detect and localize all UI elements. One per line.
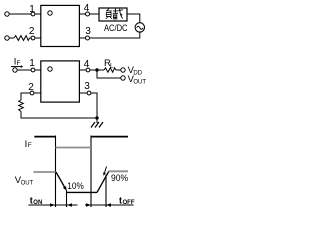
IF waveform high 2 — [91, 136, 128, 138]
pin 2 circle — [30, 91, 34, 95]
glyph 负 — [106, 9, 112, 19]
wire pin 3 to ground — [79, 93, 97, 123]
svg-text:2: 2 — [28, 82, 34, 93]
resistor R2 (input series, vertical) — [19, 100, 24, 112]
svg-text:DD: DD — [133, 71, 142, 77]
svg-text:F: F — [28, 142, 32, 149]
wire node to VOUT terminal — [97, 70, 121, 78]
pin 3 circle — [86, 36, 90, 40]
svg-text:1: 1 — [29, 4, 35, 15]
wire terminal to pin 1 — [17, 69, 41, 71]
IF waveform high 1 — [34, 136, 55, 138]
resistor R1 (series input) — [14, 36, 30, 41]
reference line v3 (IF rise) — [90, 136, 92, 208]
pin 3 circle — [87, 91, 91, 95]
wire pin 3 to AC source — [79, 32, 140, 38]
90% marker arrow — [105, 167, 107, 173]
pin 4 circle — [86, 12, 90, 16]
svg-text:10%: 10% — [67, 181, 84, 191]
svg-text:OUT: OUT — [133, 80, 146, 86]
ground symbol — [91, 122, 103, 128]
VOUT falling edge with 10% arrow — [56, 172, 65, 188]
svg-text:4: 4 — [84, 3, 90, 14]
svg-text:OFF: OFF — [123, 200, 135, 206]
svg-text:3: 3 — [84, 81, 90, 92]
pin 4 circle — [86, 68, 90, 72]
pin 1 circle — [31, 12, 35, 16]
toff arrow left — [106, 203, 111, 206]
terminal T1 (anode input) — [5, 12, 9, 16]
wire load box to AC source — [127, 14, 140, 23]
VOUT waveform low — [66, 191, 97, 193]
ton arrow left — [67, 203, 72, 206]
wire pin 4 to RL — [79, 69, 104, 71]
svg-text:AC/DC: AC/DC — [104, 23, 128, 34]
reference line v2 (10% point) — [66, 190, 68, 207]
VOUT rising edge — [97, 171, 109, 192]
terminal T2 (cathode input) — [5, 36, 9, 40]
wire resistor to pin 2 — [30, 37, 42, 39]
wire resistor to ground rail — [21, 112, 97, 119]
svg-text:90%: 90% — [111, 173, 128, 183]
svg-text:2: 2 — [29, 26, 35, 37]
terminal input — [13, 68, 17, 72]
U2 pin-1 indicator dot — [48, 67, 52, 71]
svg-text:OUT: OUT — [21, 181, 34, 187]
svg-text:F: F — [17, 60, 21, 67]
load box (负载) — [99, 8, 127, 21]
VOUT waveform high 2 (gray) — [109, 170, 129, 172]
toff arrow right — [86, 203, 91, 206]
optocoupler U2 package — [41, 61, 80, 102]
junction at ground rail — [95, 116, 98, 119]
svg-text:3: 3 — [85, 26, 91, 37]
VOUT waveform high 1 (gray) — [34, 171, 56, 173]
wire terminal T1 to pin 1 — [9, 13, 41, 15]
wire terminal T2 to resistor — [9, 37, 14, 39]
svg-text:ON: ON — [33, 200, 42, 206]
current arrow under IF — [11, 66, 22, 68]
junction node VOUT — [95, 68, 98, 71]
pin 2 circle — [31, 36, 35, 40]
optocoupler U1 package — [41, 5, 80, 46]
terminal VOUT — [121, 76, 125, 80]
reference line v4 (90% point) — [105, 175, 107, 208]
terminal VDD — [121, 68, 125, 72]
toff dimension line — [85, 204, 134, 206]
reference line v1 (IF fall) — [55, 136, 57, 208]
U1 pin-1 indicator dot — [48, 11, 52, 15]
svg-text:4: 4 — [84, 59, 90, 70]
pin 1 circle — [31, 68, 35, 72]
ton arrow right — [50, 203, 55, 206]
svg-text:1: 1 — [29, 58, 35, 69]
IF waveform low (gray) — [56, 147, 92, 149]
AC source V1 — [135, 23, 144, 32]
glyph 载 — [113, 9, 123, 19]
wire pin 2 down to resistor — [21, 93, 41, 100]
ton dimension line — [28, 204, 77, 206]
resistor RL — [104, 68, 116, 72]
wire pin 4 to load box — [79, 13, 99, 15]
wire RL to VDD terminal — [116, 69, 121, 71]
